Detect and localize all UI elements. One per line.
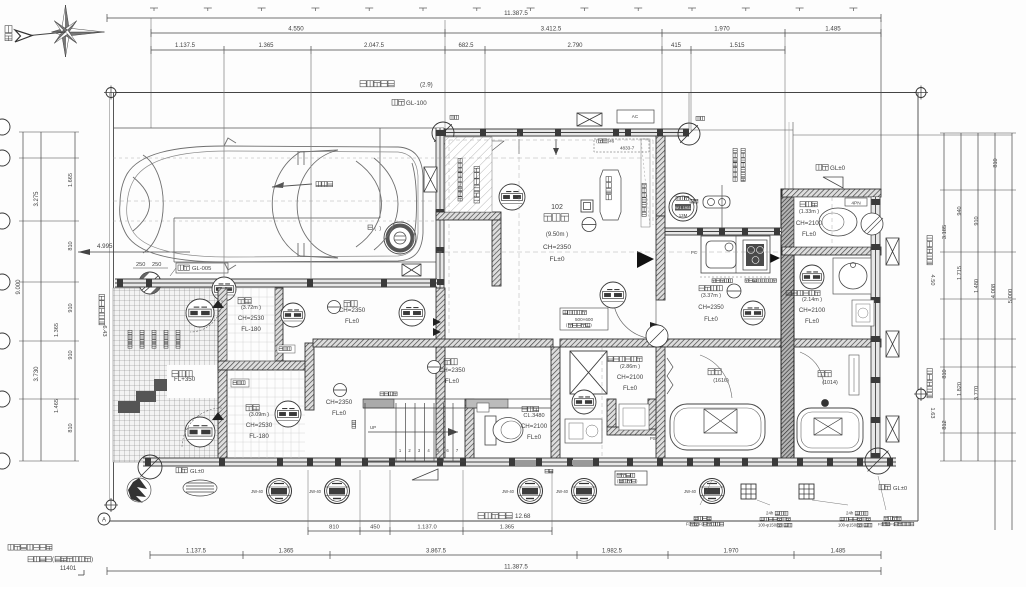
porch steps (dark) [118, 379, 170, 413]
right dimension lines [940, 133, 1016, 530]
svg-text:1.665: 1.665 [68, 173, 74, 187]
toilet 102 bowl [819, 208, 883, 236]
corridor lower label [326, 384, 353, 418]
kitchen upper cabinet dashed [700, 277, 777, 283]
svg-text:1.485: 1.485 [825, 26, 841, 33]
svg-text:1.365: 1.365 [278, 549, 294, 555]
genkan2 label [246, 405, 273, 440]
garage corner hatched circle [139, 272, 161, 294]
svg-text:3.185: 3.185 [942, 225, 948, 240]
svg-text:250: 250 [152, 262, 161, 268]
W-room lamp [582, 218, 596, 232]
top dimension row 2 [151, 26, 881, 38]
hall lower window circle [600, 282, 626, 308]
svg-text:)46: )46 [608, 138, 615, 143]
garage 設計GL-005 box [170, 263, 228, 276]
bottom vent circle 4 [556, 479, 597, 504]
washroom 102 window circle [800, 265, 824, 289]
bottom vent circle 5 [684, 479, 725, 504]
svg-text:500×600: 500×600 [575, 317, 593, 322]
svg-text:(1.33m ): (1.33m ) [799, 209, 819, 215]
column circle top-left [432, 115, 459, 144]
svg-text:4.50: 4.50 [929, 275, 935, 286]
genkan1 door arc [190, 300, 224, 332]
svg-text:812: 812 [942, 420, 948, 429]
bottom note 4 [878, 516, 914, 526]
tiled approach area [113, 288, 223, 462]
site boundary left [110, 93, 114, 509]
site boundary top [104, 86, 928, 100]
svg-text:1.63: 1.63 [929, 408, 935, 419]
car direction arrow + label 走行線 [272, 182, 333, 189]
door arc kitchen to corridor [613, 296, 663, 339]
wall: building right window wall [871, 197, 881, 461]
svg-text:(2.86m ): (2.86m ) [620, 364, 640, 370]
svg-text:1.970: 1.970 [714, 26, 730, 33]
X-box garage right upper [424, 167, 437, 192]
column circle top-right [678, 116, 705, 145]
svg-text:FL±0: FL±0 [527, 434, 542, 441]
washer box 101 [570, 351, 607, 394]
svg-text:GL±0: GL±0 [830, 165, 846, 172]
top tick marks row [150, 8, 857, 11]
X-box right wall low [886, 416, 899, 442]
svg-text:GL±0: GL±0 [893, 486, 907, 492]
svg-text:100-φ150(: 100-φ150( [758, 522, 778, 527]
svg-text:FL±0: FL±0 [802, 231, 817, 238]
corridor2 label [428, 359, 466, 385]
ramp wedge below GL label [823, 177, 843, 188]
svg-text:100-φ150(: 100-φ150( [838, 522, 858, 527]
svg-text:3.867.5: 3.867.5 [426, 549, 447, 555]
svg-text:810: 810 [942, 369, 948, 378]
wall: unit separation vertical (dark) [781, 189, 794, 461]
wall: genkan1 left vertical [218, 288, 227, 370]
shrub striped [183, 480, 217, 496]
window circle on garage wall [212, 277, 236, 301]
svg-text:PS: PS [650, 436, 656, 441]
manhole circle upper [186, 299, 214, 327]
svg-text:1.820: 1.820 [957, 382, 963, 396]
bottom grid square 1 [741, 484, 756, 499]
manhole circle lower [185, 417, 215, 447]
svg-text:11.387.5: 11.387.5 [504, 10, 528, 17]
svg-text:1.480: 1.480 [974, 279, 980, 293]
wall: genkan1 bottom [218, 361, 305, 370]
washroom 102 washer box [852, 300, 874, 326]
svg-text:GL-005: GL-005 [192, 266, 211, 272]
svg-text:W.1.1911: W.1.1911 [675, 206, 691, 210]
section marker triangle right [762, 250, 780, 267]
svg-text:1.365: 1.365 [500, 525, 515, 531]
site boundary bottom [107, 520, 918, 522]
svg-text:4.008: 4.008 [991, 284, 997, 299]
corridor window circle right [399, 300, 425, 326]
bottom vent circle 3 [502, 479, 543, 504]
svg-text:1.365: 1.365 [258, 43, 274, 49]
svg-text:910: 910 [68, 350, 74, 359]
svg-text:810: 810 [68, 241, 74, 250]
svg-text:910: 910 [974, 216, 980, 225]
svg-text:CH=2350: CH=2350 [339, 307, 366, 314]
wall: toilet unit top [782, 189, 881, 197]
bath 101 door curve [700, 355, 732, 398]
compass north arrow [5, 5, 105, 57]
bath 102 tub [797, 400, 863, 453]
X-box garage right lower [402, 264, 421, 276]
svg-text:JW-40: JW-40 [502, 489, 515, 494]
genkan2 window circle [275, 401, 301, 427]
porch white patch [167, 365, 222, 398]
svg-text:CH=2100: CH=2100 [799, 307, 826, 314]
genkan1 label [238, 298, 265, 333]
svg-text:CH=2100: CH=2100 [617, 374, 644, 381]
washroom 101 label [608, 357, 644, 393]
wall: W-room left window wall [436, 128, 446, 461]
svg-text:CH=2530: CH=2530 [246, 422, 273, 429]
svg-text:UP: UP [370, 425, 376, 430]
svg-text:FL±0: FL±0 [550, 256, 565, 263]
svg-text:810: 810 [68, 423, 74, 432]
svg-text:3.412.5: 3.412.5 [541, 26, 562, 33]
stairs [352, 392, 551, 461]
W-room inner dashed offset lines [449, 140, 653, 335]
svg-text:CH=2350: CH=2350 [543, 244, 571, 251]
svg-text:3.730: 3.730 [34, 366, 40, 382]
svg-text:JW-40: JW-40 [309, 489, 322, 494]
bath 101 label [708, 369, 729, 384]
svg-text:12.68: 12.68 [515, 513, 531, 520]
svg-text:GL-100: GL-100 [406, 100, 427, 107]
bottom note 2 [758, 511, 792, 528]
washroom 101 vanity [565, 419, 602, 443]
svg-text:11401: 11401 [60, 566, 77, 572]
svg-text:2.790: 2.790 [567, 43, 583, 49]
boundary label 隣地境界線 (2.9) [360, 81, 433, 89]
washroom 102 vanity [833, 258, 871, 294]
boundary corner mark A [98, 513, 110, 525]
bottom note 1 [686, 516, 724, 526]
svg-text:4.550: 4.550 [288, 26, 304, 33]
toilet 101 [477, 403, 523, 445]
svg-text:FL+350: FL+350 [174, 376, 196, 383]
shrub dark [127, 478, 151, 503]
svg-text:24h: 24h [846, 511, 854, 516]
wall: building bottom [143, 458, 896, 467]
washroom 102 label [786, 291, 826, 326]
corner circle bottom-right [865, 448, 891, 474]
bottom-left note サッシ認定番号 [8, 545, 93, 576]
svg-text:FL±0: FL±0 [704, 317, 718, 323]
room label 102 洋・室 [543, 204, 571, 263]
svg-text:2.047.5: 2.047.5 [364, 43, 385, 49]
svg-text:FL±0: FL±0 [332, 410, 347, 417]
washer pan box 101b [619, 404, 656, 441]
wall: stairs right vertical [465, 399, 474, 461]
left grid bubbles [0, 119, 10, 469]
top dimension line 11387.5 [107, 10, 881, 22]
window circle W-room left [499, 184, 525, 210]
svg-text:(2.9): (2.9) [420, 82, 433, 89]
genkan2 floor grid [227, 370, 305, 458]
svg-text:(3.37m ): (3.37m ) [701, 293, 721, 299]
right boundary vertical labels [927, 236, 935, 286]
svg-text:4.995: 4.995 [97, 243, 113, 250]
svg-text:): ) [91, 557, 93, 563]
door swing marks below top wall [489, 139, 559, 155]
svg-text:1.137.5: 1.137.5 [175, 43, 196, 49]
bottom dimension row A [308, 470, 552, 535]
top dimension row 3 [151, 43, 785, 54]
garage 4.995 arrow [78, 243, 190, 255]
svg-text:5.000: 5.000 [1008, 289, 1014, 304]
wall: closet bottom [436, 212, 501, 220]
wall: genkan2 vertical below [305, 343, 314, 410]
svg-text:24h: 24h [766, 511, 774, 516]
svg-text:1.465: 1.465 [54, 399, 60, 413]
svg-text:CH=2350: CH=2350 [698, 305, 724, 311]
genkan2 door arc [182, 408, 224, 448]
left dimension lines [16, 132, 79, 461]
svg-text:FL±0: FL±0 [805, 318, 820, 325]
HB box bottom [615, 471, 647, 485]
bottom vent circle 1 [251, 479, 292, 504]
svg-text:CH=2100: CH=2100 [521, 423, 548, 430]
bottom note 5 leaders [700, 476, 886, 510]
bottom grid square 2 [799, 484, 814, 499]
svg-text:102: 102 [551, 204, 563, 211]
svg-text:940: 940 [957, 206, 963, 215]
svg-text:CL.3480: CL.3480 [523, 413, 544, 419]
wall: toilet/washroom102 divider [782, 247, 881, 255]
bottom dimension row C [107, 564, 881, 576]
svg-text:CH=2350: CH=2350 [439, 367, 466, 374]
bottom note 3 [838, 511, 872, 528]
AC box top [617, 110, 654, 123]
svg-text:FL±0: FL±0 [345, 318, 360, 325]
kitchen lamp [727, 284, 741, 298]
dimension drop lines [151, 18, 881, 282]
bottom vent circle 2 [309, 479, 350, 504]
svg-text:1.137.0: 1.137.0 [417, 525, 436, 531]
toilet 102 4PN box [845, 198, 867, 207]
svg-text:CH=2350: CH=2350 [326, 399, 353, 406]
underfloor access box [560, 308, 608, 330]
bath 102 label [818, 371, 838, 386]
svg-text:1.137.5: 1.137.5 [186, 549, 207, 555]
parking sticker dark circle [368, 222, 416, 254]
wall: toilet101/washroom vertical [551, 347, 560, 461]
svg-text:GL±0: GL±0 [190, 469, 204, 475]
svg-text:(9.50m ): (9.50m ) [546, 232, 568, 238]
svg-text:1.485: 1.485 [830, 549, 846, 555]
svg-text:9.000: 9.000 [16, 279, 22, 295]
label 設計GL±0 bottom-right [879, 485, 907, 493]
svg-text:3.275: 3.275 [34, 191, 40, 207]
bath 101 room [665, 347, 673, 458]
interior dashed center lines [224, 50, 832, 458]
wall: closet right vertical [492, 220, 501, 286]
closet hatch + label クローゼット [445, 137, 492, 212]
toilet 102 label [796, 202, 823, 239]
svg-text:1.365: 1.365 [54, 323, 60, 337]
hatch wall piece small (tesuri) [231, 345, 295, 387]
svg-text:4PN: 4PN [851, 201, 861, 207]
boundary label 隣地境界線 12.68 [478, 513, 531, 520]
svg-text:682.5: 682.5 [458, 43, 474, 49]
svg-text:PC: PC [691, 250, 697, 255]
wall: washroom/bath101 pocket [607, 399, 657, 435]
svg-text:FL±0: FL±0 [445, 378, 460, 385]
wall: bath101 left vertical [656, 347, 665, 461]
toilet 101 label [521, 407, 548, 442]
approach small vertical notes [128, 330, 180, 348]
X-box right wall mid [886, 331, 899, 357]
bottom dimension row B [150, 549, 881, 560]
svg-text:AC: AC [632, 114, 639, 119]
porch label ポーチ FL+350 [172, 371, 196, 383]
label 設計GL-100 [392, 100, 427, 108]
wall: building top window wall [437, 129, 689, 137]
svg-text:13M: 13M [679, 213, 688, 218]
section marker triangle left [637, 251, 654, 268]
svg-text:CH=2100: CH=2100 [796, 220, 823, 227]
svg-text:FL±0: FL±0 [623, 385, 638, 392]
kitchen counter + sink + IH [691, 236, 770, 273]
svg-text:1.970: 1.970 [723, 549, 739, 555]
wall: garage bottom window wall [115, 279, 437, 288]
svg-text:4833-7: 4833-7 [620, 146, 635, 151]
boundary label 道路境界線 6.43 (left, vertical) [99, 295, 107, 337]
wall: corridor horizontal [313, 339, 781, 347]
bath 102 shower panel [800, 352, 859, 395]
svg-text:810: 810 [329, 525, 339, 531]
svg-text:450: 450 [370, 525, 380, 531]
svg-text:(2.14m ): (2.14m ) [802, 297, 822, 303]
svg-text:JW-40: JW-40 [684, 489, 697, 494]
svg-text:A: A [102, 518, 106, 524]
bath 101 tub [670, 404, 765, 450]
garage 250 250 labels [133, 262, 168, 268]
svg-text:3.770: 3.770 [974, 386, 980, 401]
dashed note box 4833 [594, 138, 649, 152]
toilet 102 room [794, 197, 871, 247]
vertical note 冷蔵庫 [642, 183, 646, 216]
svg-text:FL-180: FL-180 [241, 326, 261, 333]
svg-text:250: 250 [136, 262, 145, 268]
corridor window circle left [281, 303, 305, 327]
svg-text:6.43: 6.43 [101, 325, 107, 336]
label 設計GL±0 top-right [816, 165, 846, 173]
wall: genkan2 left lower [218, 370, 227, 460]
open triangle below wall [412, 469, 438, 480]
eaves thin lines right section [689, 20, 1012, 189]
garage eaves outline [113, 128, 444, 262]
wall: kitchen left vertical [656, 136, 665, 300]
svg-text:(3.09m ): (3.09m ) [249, 412, 269, 418]
boundary left end circle [104, 498, 118, 512]
wall: genkan1 right vertical [275, 288, 283, 361]
svg-text:1.515: 1.515 [729, 43, 745, 49]
svg-text:(1014): (1014) [822, 380, 838, 386]
svg-text:CH=2530: CH=2530 [238, 315, 265, 322]
corridor1 label [328, 301, 366, 326]
svg-text:(3.72m ): (3.72m ) [241, 305, 261, 311]
storage hexagon 納戸収納 [600, 170, 621, 220]
X-box right of toilet unit [886, 238, 899, 265]
water meter circle [669, 193, 697, 221]
door triangles on W-room left wall [433, 318, 441, 336]
wall: kitchen top [656, 228, 781, 236]
kitchen label キッチン [698, 286, 724, 324]
svg-text:1.715: 1.715 [957, 266, 963, 280]
svg-text:(: ( [52, 557, 54, 563]
label 設計GL±0 bottom-left [176, 468, 204, 476]
svg-text:910: 910 [68, 303, 74, 312]
PS dashed duct [641, 139, 650, 227]
svg-text:11.387.5: 11.387.5 [504, 564, 528, 571]
vertical note 物干し [733, 148, 745, 181]
genkan1 floor grid [227, 288, 275, 361]
svg-text:415: 415 [671, 43, 682, 49]
wall: washroom102/bath102 divider [794, 339, 881, 347]
svg-text:FL-180: FL-180 [249, 433, 269, 440]
svg-text:810: 810 [993, 158, 999, 167]
corner circle bottom-left [138, 455, 162, 479]
site boundary right [914, 93, 928, 522]
corner circle mid (corridor/bath) [646, 325, 668, 347]
W-room small square symbol [581, 200, 593, 212]
hose bib pill [690, 185, 730, 228]
svg-text:1.982.5: 1.982.5 [602, 549, 623, 555]
svg-text:JW-40: JW-40 [251, 489, 264, 494]
svg-text:JW-40: JW-40 [556, 489, 569, 494]
car (plan view) [120, 138, 423, 270]
fusuma labels small [545, 469, 553, 473]
washroom 101 circle [572, 390, 596, 414]
X-box on top wall [577, 113, 602, 126]
kitchen window circle [741, 301, 765, 325]
